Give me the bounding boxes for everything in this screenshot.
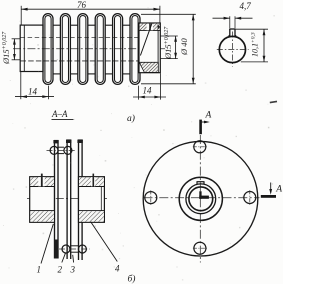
leader 1 (41, 224, 53, 264)
dim 14 right extension lines (138, 86, 140, 100)
dim 10.1 line and arrows (263, 29, 265, 62)
keyway gap in top band (147, 24, 153, 31)
svg-text:Ø 40: Ø 40 (179, 37, 189, 56)
P1 solid lower segment (54, 240, 58, 259)
scan artifact dash (270, 101, 277, 102)
spring axis centerline (13, 48, 168, 50)
bottom bolt (59, 245, 90, 253)
coil ring 6 (130, 14, 140, 85)
section arrow right (261, 183, 282, 197)
svg-text:A–A: A–A (51, 109, 68, 119)
keyway circle (186, 184, 216, 214)
keyway notch (197, 182, 205, 185)
left sleeve (20, 25, 43, 71)
svg-text:1: 1 (37, 265, 42, 275)
svg-text:14: 14 (28, 87, 38, 97)
dim 14 left line (15, 96, 54, 98)
coil ring 3 (78, 14, 88, 85)
dim 76 line (21, 8, 160, 10)
coil ring 1 (43, 14, 53, 85)
right sleeve bottom hatched trapezoid (139, 62, 158, 72)
chamfer triangle right end of band (158, 24, 160, 29)
dim d15 right extension lines (161, 35, 178, 37)
plate top caps (53, 140, 58, 143)
right sleeve inner edge line (157, 23, 159, 73)
flange horizontal centerline (144, 197, 260, 199)
flange vertical centerline (199, 135, 201, 263)
dim d40 extension lines (141, 13, 196, 15)
bolt hole top (194, 141, 206, 153)
bold bore cross horizontal bar (199, 196, 209, 199)
coil ring 4 (95, 14, 105, 85)
tab (key) on circle (229, 29, 237, 37)
top bolt (47, 146, 77, 154)
conical bore diagonal (140, 23, 152, 55)
left hub (30, 174, 55, 223)
bolt hole left (145, 192, 157, 204)
bore circle (189, 187, 213, 211)
dim 10.1 extension lines (236, 28, 268, 30)
svg-text:14: 14 (143, 85, 153, 95)
coil back connectors top (53, 24, 130, 26)
right hub (79, 174, 105, 223)
dim 14 right line (133, 96, 166, 98)
svg-text:а): а) (127, 113, 135, 124)
floating disc P2 (67, 140, 72, 259)
hidden bore line upper (21, 37, 160, 39)
leader 4 (91, 222, 118, 262)
dim d15 left line and arrows (13, 39, 15, 60)
svg-text:A: A (205, 111, 212, 121)
flange plate P3 (78, 140, 83, 260)
hub outer circle (179, 177, 222, 220)
right sleeve top hatched band (140, 24, 160, 31)
dim d15 left extension lines (12, 38, 21, 40)
dim 4.7 (213, 17, 230, 19)
svg-text:2: 2 (58, 265, 63, 275)
section main axis (27, 198, 108, 200)
flange outer circle (143, 141, 258, 256)
section arrow top (201, 111, 212, 135)
leader 3 (72, 255, 75, 263)
svg-text:4: 4 (115, 264, 120, 274)
leader 2 (62, 253, 66, 263)
svg-text:3: 3 (70, 265, 76, 275)
flange plate P1 (54, 141, 59, 259)
dim 76 extension lines (20, 6, 22, 25)
bolt hole bottom (194, 242, 206, 254)
dim 14 left extension lines (20, 72, 22, 99)
dim d40 line and arrows (192, 14, 194, 84)
svg-text:4,7: 4,7 (240, 1, 252, 11)
coil ring 5 (113, 14, 123, 85)
hidden bore line lower (21, 60, 160, 62)
right sleeve body (139, 23, 160, 73)
end view circle (219, 36, 245, 62)
bolt hole right (244, 192, 256, 204)
key tick in gap (149, 24, 151, 31)
svg-text:A: A (275, 185, 282, 195)
coil back connectors bottom (53, 73, 130, 75)
end view horizontal centerline (217, 49, 249, 51)
svg-text:76: 76 (77, 0, 87, 10)
end view vertical centerline (231, 32, 233, 67)
svg-text:б): б) (128, 274, 136, 284)
bold bore cross vertical bar (199, 191, 201, 199)
dim d15 right line and arrows (175, 36, 177, 59)
coil ring 2 (60, 14, 70, 85)
